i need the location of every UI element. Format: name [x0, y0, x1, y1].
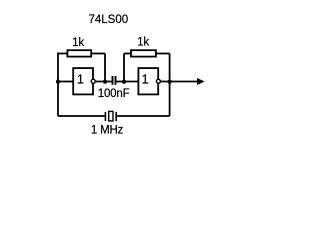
wire C1 to gate U2 input [116, 81, 139, 83]
svg-text:1 MHz: 1 MHz [91, 125, 124, 137]
bottom rail left segment [58, 115, 105, 117]
inverter U2 body [138, 68, 158, 94]
node D vertical wire [169, 54, 171, 117]
svg-text:1: 1 [77, 72, 84, 87]
crystal X1 left plate [104, 112, 106, 121]
wire R2 to node D top [156, 53, 170, 55]
bottom rail right segment [117, 115, 170, 117]
svg-text:100nF: 100nF [98, 88, 130, 100]
junction node D [168, 80, 172, 84]
wire node A to resistor R1 [57, 53, 67, 54]
capacitor C1 plates [113, 76, 116, 85]
inverter U2 output bubble [156, 79, 160, 83]
svg-text:1: 1 [141, 72, 148, 87]
crystal X1 body [109, 111, 113, 121]
output wire [170, 81, 199, 83]
wire R1 to node B top [91, 53, 105, 55]
inverter U1 body [73, 68, 93, 94]
svg-text:1k: 1k [137, 37, 149, 49]
svg-text:74LS00: 74LS00 [88, 14, 128, 26]
svg-text:1k: 1k [72, 37, 84, 49]
junction node A [56, 80, 60, 84]
node B vertical wire [104, 54, 106, 82]
wire node C to resistor R2 [124, 53, 131, 55]
junction node C [122, 80, 126, 84]
inverter U1 output bubble [91, 79, 95, 83]
resistor R1 body [67, 50, 91, 56]
node A vertical wire (left rail) [57, 54, 59, 117]
node C vertical wire [123, 54, 125, 82]
wire U1 output to node B [95, 81, 112, 83]
resistor R2 body [131, 50, 156, 56]
output arrowhead [197, 78, 205, 85]
junction node B [103, 80, 107, 84]
wire node A to gate U1 input [58, 81, 73, 83]
crystal X1 right plate [115, 112, 117, 121]
wire U2 output to node D [160, 81, 169, 83]
